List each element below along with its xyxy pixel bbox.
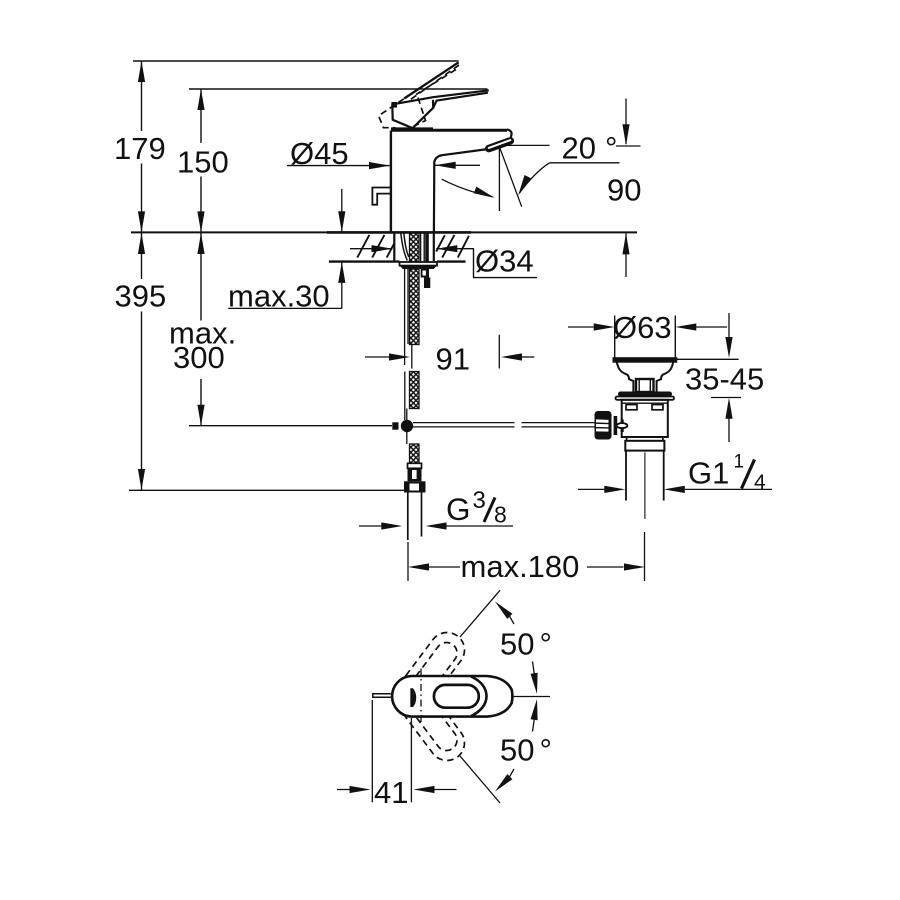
counter slab top thick segment xyxy=(327,231,471,234)
20deg right angle arc with arrow xyxy=(519,163,549,193)
drain bell taper xyxy=(617,362,673,392)
hose end fitting xyxy=(408,463,422,468)
svg-text:G: G xyxy=(446,491,471,527)
rod line to node xyxy=(406,409,408,421)
faucet body left edge xyxy=(390,131,392,232)
supply pipe xyxy=(408,493,422,541)
dim O63 arrows xyxy=(568,326,594,328)
mounting nut xyxy=(400,266,438,269)
shank thread black bar xyxy=(425,233,429,262)
braided hose in hole xyxy=(410,233,420,262)
dim 41 ext lines xyxy=(372,700,411,802)
dim O34 leader xyxy=(474,249,538,278)
svg-text:179: 179 xyxy=(114,131,166,166)
hole left wall xyxy=(393,233,395,261)
dim O45 leader left xyxy=(287,165,369,167)
ref line 150 upper reference xyxy=(189,88,488,90)
svg-text:3: 3 xyxy=(473,487,486,514)
svg-text:50°: 50° xyxy=(500,733,552,768)
max300 bottom ref line xyxy=(189,425,392,427)
svg-text:Ø45: Ø45 xyxy=(290,136,349,171)
20deg left angle arc with arrow xyxy=(442,179,493,197)
svg-text:41: 41 xyxy=(374,775,408,810)
drain center line xyxy=(644,452,646,519)
pop-up rod knob left of body xyxy=(372,188,391,205)
svg-text:91: 91 xyxy=(436,342,470,377)
dim G3/8 arrows xyxy=(359,525,382,527)
svg-text:1: 1 xyxy=(734,452,745,473)
dim max30 down arrow xyxy=(341,189,343,232)
50deg upper axis arrow xyxy=(533,662,537,687)
drain knurled knob xyxy=(595,411,612,440)
svg-text:50°: 50° xyxy=(500,627,552,662)
svg-text:300: 300 xyxy=(173,340,225,375)
mounting washer below counter xyxy=(400,262,438,266)
dim 35-45 upper xyxy=(728,313,730,337)
handle base solid xyxy=(392,100,433,128)
handle base corner block xyxy=(391,102,397,108)
drain lower flange xyxy=(616,397,675,400)
svg-text:395: 395 xyxy=(115,279,167,314)
50deg lower leader arrow xyxy=(509,769,514,777)
top view lower dashed lever xyxy=(395,683,471,768)
dim 90 upper arrow xyxy=(625,99,627,145)
drain body xyxy=(622,400,668,437)
pop-up rod tube lines beside hose xyxy=(405,269,408,420)
50deg lower axis arrow xyxy=(533,707,537,732)
50deg upper leader arrow xyxy=(509,616,514,624)
hose nut G3/8 xyxy=(404,481,426,492)
pivot node xyxy=(401,420,413,432)
braided hose segment C xyxy=(410,444,420,464)
top view stadium body xyxy=(392,676,512,717)
50deg upper extension line xyxy=(460,590,500,637)
dim line 150/max300 vertical xyxy=(200,89,202,426)
top view upper dashed lever xyxy=(395,625,471,710)
faucet top surface bar xyxy=(391,129,507,132)
pop-up actuator step xyxy=(421,269,431,288)
top view rod hole D-mark xyxy=(410,688,416,707)
dim O34 arrows xyxy=(350,248,393,250)
rod end block xyxy=(392,422,398,429)
svg-text:20°: 20° xyxy=(562,131,618,166)
shank curved hose lines in hole xyxy=(401,233,409,261)
counter hatching xyxy=(357,235,469,258)
20deg underline leader xyxy=(550,162,620,164)
svg-text:35-45: 35-45 xyxy=(685,362,764,397)
dim line 179/395 vertical xyxy=(141,61,143,490)
dim 91 arrows xyxy=(365,356,389,358)
svg-text:max.30: max.30 xyxy=(228,279,330,314)
dim 41 arrows xyxy=(337,789,350,791)
dim 91 ticks xyxy=(412,335,500,369)
handle lever raised front edge (solid) xyxy=(404,62,458,98)
svg-text:8: 8 xyxy=(494,502,507,528)
handle base dashed rotated outline xyxy=(379,98,426,128)
top view inner oval xyxy=(434,685,479,708)
dim max180 line and arrows xyxy=(429,566,460,568)
drain washer xyxy=(618,392,672,397)
svg-text:Ø34: Ø34 xyxy=(475,244,534,279)
svg-text:4: 4 xyxy=(754,471,766,494)
395 bottom ref line xyxy=(129,489,407,491)
max30 underline xyxy=(228,307,342,309)
counter slab bottom line xyxy=(329,260,466,262)
drain rod screw xyxy=(621,420,624,433)
svg-text:150: 150 xyxy=(177,145,229,180)
drain collar xyxy=(625,441,664,451)
counter top line xyxy=(131,231,637,233)
dim 90 lower arrow xyxy=(622,233,629,254)
dim O45 right arrow xyxy=(435,162,456,169)
handle lever solid xyxy=(397,90,489,108)
svg-text:90: 90 xyxy=(607,173,641,208)
braided hose segment B xyxy=(410,372,420,409)
top view axis line xyxy=(513,696,551,698)
20deg aerator leader line xyxy=(508,144,550,146)
drain body inset xyxy=(627,437,663,441)
svg-text:G1: G1 xyxy=(688,456,729,491)
top view center dash-dot line xyxy=(420,669,422,725)
handle lever raised dashed outline xyxy=(409,65,459,101)
drain head walls / O63 extension lines xyxy=(615,316,676,359)
20deg slanted stream line xyxy=(500,148,522,207)
drain body slots xyxy=(626,405,637,410)
horizontal pop-up rod to drain xyxy=(413,423,595,427)
shank tube lines xyxy=(421,233,425,261)
aerator xyxy=(489,141,511,149)
drain plug boss xyxy=(636,379,654,392)
dim G1 1/4 arrows xyxy=(578,488,605,490)
faucet base bottom bar xyxy=(391,127,433,130)
braided hose segment A xyxy=(410,269,420,345)
20deg vertical stream reference xyxy=(498,148,500,211)
50deg lower extension line xyxy=(460,756,500,803)
drain flange xyxy=(614,358,677,362)
ref line top (179 upper reference) xyxy=(133,60,459,62)
hole right wall xyxy=(433,233,435,261)
svg-text:Ø63: Ø63 xyxy=(613,310,672,345)
fraction slash G 3/8 xyxy=(484,498,495,523)
fraction slash G1 1/4 xyxy=(742,460,755,489)
spout underside and right column edge xyxy=(434,149,488,232)
dim 35-45 lower xyxy=(725,398,732,419)
top view pop-up rod stub xyxy=(373,694,391,697)
svg-text:max.180: max.180 xyxy=(461,549,580,584)
top view lever end arc xyxy=(471,677,487,717)
drain tailpipe xyxy=(626,451,664,501)
spout right corner xyxy=(507,129,512,141)
dim max30 up arrow and leader xyxy=(341,262,343,309)
drain rod coupling bar xyxy=(612,416,614,436)
dim max180 ext lines xyxy=(408,532,645,581)
